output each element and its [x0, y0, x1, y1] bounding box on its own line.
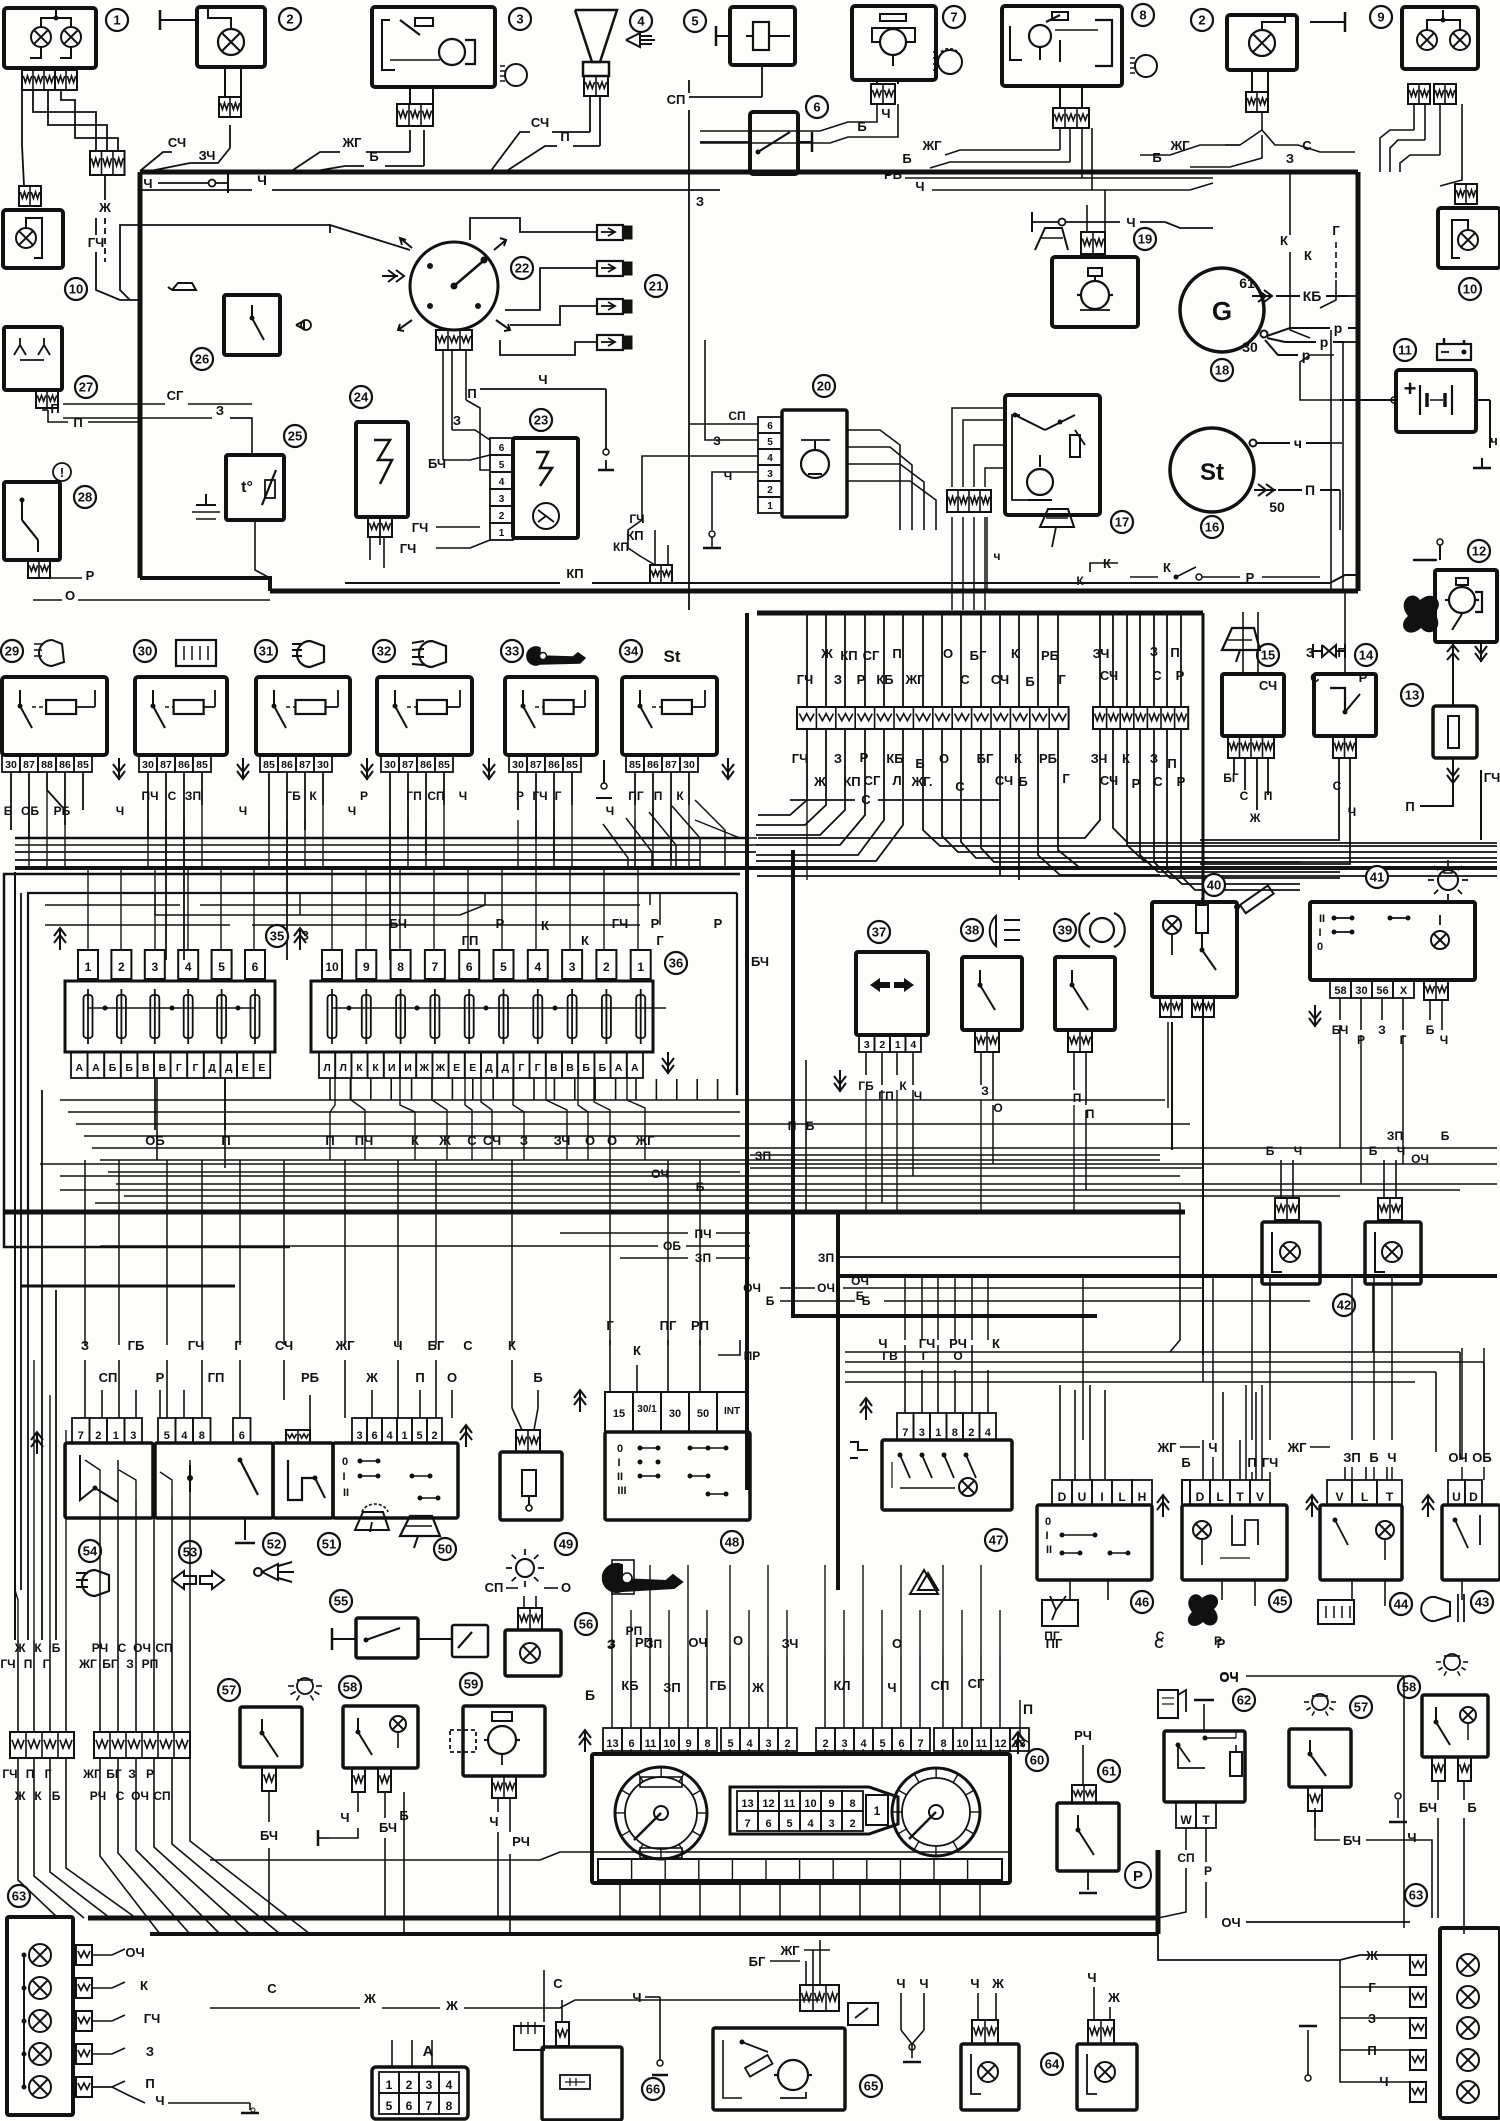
wire RP cluster right — [1020, 1700, 1028, 1742]
svg-text:БГ: БГ — [1223, 771, 1239, 785]
wire central vert below B — [1153, 729, 1155, 790]
svg-text:Р: Р — [1214, 1634, 1222, 1648]
svg-text:К: К — [1122, 751, 1130, 766]
svg-text:87: 87 — [402, 759, 414, 771]
svg-text:ГЧ: ГЧ — [144, 2011, 161, 2026]
fuse box 36 top bar — [332, 1006, 666, 1011]
svg-text:t°: t° — [241, 479, 253, 496]
svg-text:РБ: РБ — [1039, 751, 1057, 766]
wire bundle below central 4 — [756, 790, 865, 845]
svg-text:2: 2 — [118, 960, 125, 974]
wire rb long — [905, 177, 1213, 179]
svg-text:Р: Р — [1133, 1868, 1143, 1885]
svg-text:З: З — [696, 194, 704, 209]
icon warning above 28 — [53, 463, 71, 481]
svg-text:64: 64 — [1045, 2057, 1060, 2072]
svg-text:Ч: Ч — [348, 804, 356, 818]
switch 44 box — [1320, 1505, 1402, 1580]
svg-text:К: К — [309, 789, 317, 803]
oil switch 26 box — [224, 295, 311, 355]
fuel sender 62 box — [1164, 1731, 1245, 1802]
fuse box 36 top cells — [322, 950, 651, 979]
lamp 42b connector — [1378, 1198, 1402, 1220]
svg-text:85: 85 — [629, 759, 641, 771]
label circle 56 — [575, 1613, 597, 1635]
svg-text:D: D — [1469, 1490, 1478, 1504]
connector cells left of 20 — [758, 417, 782, 513]
svg-text:З: З — [216, 403, 224, 418]
relay 14 box — [1314, 591, 1376, 736]
wires heater19 up — [940, 190, 1105, 232]
svg-text:5: 5 — [499, 460, 505, 471]
label circle 21 — [645, 275, 667, 297]
svg-text:Е: Е — [242, 1062, 249, 1074]
icon bulb 41 — [1428, 860, 1468, 900]
wire central vert below — [1057, 729, 1059, 790]
icon key 48 — [603, 1560, 682, 1594]
wires relay merge right — [672, 820, 757, 846]
svg-text:П: П — [24, 1657, 33, 1671]
svg-text:0: 0 — [617, 1443, 623, 1455]
label circle 25 — [284, 425, 306, 447]
svg-text:1: 1 — [113, 13, 120, 28]
svg-text:66: 66 — [646, 2082, 660, 2097]
fuse box 35 outline — [65, 981, 275, 1052]
wires 37-39 down — [882, 1090, 1086, 1203]
svg-text:Ч: Ч — [489, 1814, 498, 1829]
svg-text:Б: Б — [915, 756, 924, 771]
svg-text:10: 10 — [663, 1738, 675, 1750]
cluster top pins right — [816, 1728, 1029, 1751]
svg-text:Ж: Ж — [365, 1370, 378, 1385]
wire central vert above B — [1099, 615, 1101, 707]
connector under 1 — [22, 70, 77, 90]
label circle 42 — [1333, 1294, 1355, 1316]
svg-text:30: 30 — [683, 759, 695, 771]
wire frame extra vertical — [20, 893, 22, 1590]
switch 54 pins — [72, 1418, 142, 1443]
lamp 63R 2 — [1457, 1986, 1479, 2008]
wire vertical thick x838 — [836, 1212, 840, 1590]
svg-text:БГ: БГ — [977, 751, 994, 766]
svg-text:ч: ч — [1490, 433, 1498, 448]
svg-text:52: 52 — [267, 1537, 281, 1552]
svg-text:К: К — [356, 1062, 363, 1074]
svg-text:31: 31 — [259, 644, 273, 659]
wires G R verticals — [1331, 330, 1343, 591]
wire h right 1168 — [750, 1167, 1203, 1169]
wire under 57L — [260, 1791, 278, 1918]
svg-text:Ж: Ж — [813, 774, 826, 789]
svg-text:Г: Г — [535, 1062, 541, 1074]
svg-text:2: 2 — [406, 2078, 413, 2092]
svg-text:1: 1 — [935, 1427, 941, 1439]
stubs below switch row — [1070, 1580, 1462, 1606]
svg-text:St: St — [664, 647, 681, 666]
svg-text:Д: Д — [485, 1062, 493, 1074]
svg-text:СЧ: СЧ — [1100, 773, 1118, 788]
icon wiper 15 — [1222, 628, 1260, 662]
svg-text:БЧ: БЧ — [260, 1828, 278, 1843]
side lamp 10L box — [3, 210, 63, 268]
starter St 16 — [1170, 428, 1340, 515]
wires above 43-46 — [1213, 1457, 1484, 1480]
label circle 48 — [721, 1531, 743, 1553]
svg-text:ЗП: ЗП — [663, 1680, 681, 1695]
label circle 28 — [74, 486, 96, 508]
wire bundle B3 — [1127, 790, 1497, 862]
svg-text:8: 8 — [849, 1798, 855, 1810]
svg-text:22: 22 — [515, 261, 529, 276]
wires dense step left — [15, 845, 807, 880]
wire central vert below B — [1180, 729, 1182, 790]
svg-text:57: 57 — [222, 1683, 236, 1698]
lamp 63R 3 — [1457, 2017, 1479, 2039]
wire central vert above — [941, 615, 943, 707]
label circle 24 — [350, 386, 372, 408]
lamp cluster 63R box — [1440, 1928, 1500, 2118]
svg-text:ГП: ГП — [878, 1089, 893, 1103]
svg-text:ЖГ: ЖГ — [82, 1767, 101, 1781]
wire central vert below — [960, 729, 962, 790]
svg-text:Б: Б — [1152, 150, 1161, 165]
svg-text:1: 1 — [637, 960, 644, 974]
wire main harness top loop — [140, 172, 1358, 591]
relay 30 pins — [139, 755, 211, 772]
wires bundle to lamps 42 — [1203, 1108, 1281, 1355]
wire central vert above — [1018, 615, 1020, 707]
wire central vert below — [806, 729, 808, 790]
svg-text:О: О — [993, 1101, 1002, 1115]
svg-text:Ч: Ч — [340, 1810, 349, 1825]
svg-text:З: З — [1378, 1023, 1386, 1037]
svg-text:Б: Б — [109, 1062, 117, 1074]
svg-text:6: 6 — [252, 960, 259, 974]
switch 44 cells — [1327, 1480, 1402, 1505]
svg-text:3: 3 — [151, 960, 158, 974]
label circle 50 — [434, 1538, 456, 1560]
connector above 19 — [1081, 232, 1105, 254]
wires box1 to 10L — [22, 90, 36, 186]
wires above fuse area 1 — [155, 893, 485, 915]
svg-text:Ж: Ж — [820, 646, 833, 661]
icon oil can — [168, 283, 196, 290]
svg-text:6: 6 — [466, 960, 473, 974]
arrow fuse 36 down — [662, 1052, 674, 1074]
icon interior light 57L — [288, 1678, 322, 1700]
svg-text:Ч: Ч — [919, 1976, 928, 1991]
svg-text:Ч: Ч — [970, 1976, 979, 1991]
svg-text:Б: Б — [1369, 1450, 1378, 1465]
svg-text:КБ: КБ — [1303, 288, 1322, 304]
svg-text:10: 10 — [956, 1738, 968, 1750]
icon wiper below 17 — [1040, 509, 1074, 547]
svg-text:42: 42 — [1337, 1298, 1351, 1313]
svg-text:ЖГ: ЖГ — [1156, 1440, 1177, 1455]
label circle 9 — [1370, 6, 1392, 28]
labels central above right — [1093, 644, 1185, 683]
wire sp o 56 — [499, 1600, 501, 1612]
relay 29 pins — [2, 755, 92, 772]
label circle 32 — [373, 640, 395, 662]
wires above 49 — [508, 1338, 543, 1430]
relay 31 pins — [260, 755, 332, 772]
svg-text:БЧ: БЧ — [1343, 1833, 1361, 1848]
svg-text:ГЧ: ГЧ — [2, 1767, 17, 1781]
svg-text:11: 11 — [645, 1738, 657, 1750]
svg-text:12: 12 — [994, 1738, 1006, 1750]
svg-text:ПЧ: ПЧ — [694, 1227, 711, 1241]
svg-text:5: 5 — [786, 1818, 792, 1830]
svg-text:В: В — [550, 1062, 558, 1074]
relay 33 box — [505, 677, 597, 755]
svg-text:4: 4 — [767, 453, 773, 464]
lamp 63L 1 — [22, 1944, 52, 2087]
svg-text:V: V — [1256, 1490, 1264, 1504]
arrow fuse 35 — [54, 928, 306, 950]
wire bundle down 5 — [999, 790, 1001, 875]
svg-text:4: 4 — [185, 960, 192, 974]
label circle 43 — [1471, 1591, 1493, 1613]
wire bundle right 1362 — [845, 1362, 1484, 1460]
speedometer — [892, 1768, 980, 1856]
wire central vert above B — [1112, 615, 1114, 707]
svg-text:86: 86 — [420, 759, 432, 771]
label circle 44 — [1390, 1593, 1412, 1615]
wire bundle right 1372 — [845, 1372, 1436, 1452]
svg-text:С: С — [1156, 1629, 1165, 1643]
wire 55 to 56 — [418, 1638, 452, 1640]
svg-text:50: 50 — [697, 1408, 709, 1420]
lighter 40 box — [1152, 898, 1237, 997]
svg-text:СП: СП — [728, 409, 745, 423]
connector 56 — [518, 1596, 542, 1630]
ground 63R — [1299, 2026, 1317, 2081]
wire field h7 — [116, 1183, 740, 1185]
svg-text:СЧ: СЧ — [991, 672, 1009, 687]
svg-text:П: П — [1086, 1107, 1095, 1121]
wires right to 43-46 — [1083, 1276, 1484, 1460]
svg-text:КП: КП — [843, 774, 860, 789]
conn above 66 — [556, 2000, 569, 2046]
label circle 37 — [868, 921, 890, 943]
wires box20 to sp vertical — [613, 340, 758, 565]
switch 50 pins — [352, 1418, 442, 1443]
svg-text:18: 18 — [1215, 363, 1229, 378]
svg-text:8: 8 — [199, 1430, 205, 1442]
svg-text:36: 36 — [669, 956, 683, 971]
wire dense central 2 — [825, 805, 827, 893]
wires plugs to distributor — [470, 218, 597, 355]
svg-text:85: 85 — [566, 759, 578, 771]
svg-text:24: 24 — [354, 390, 369, 405]
svg-text:1: 1 — [767, 501, 773, 512]
svg-text:40: 40 — [1207, 878, 1221, 893]
label circle 47 — [985, 1529, 1007, 1551]
ground arrow 41 — [1309, 1005, 1321, 1027]
svg-text:Г: Г — [1062, 771, 1070, 786]
wire battery to bus — [1340, 397, 1498, 468]
svg-text:ЗЧ: ЗЧ — [199, 148, 216, 163]
svg-text:30: 30 — [142, 759, 154, 771]
wire 55 down — [470, 1639, 502, 1700]
lamp 63L 5 — [22, 1955, 52, 2098]
labels central below tier1 — [792, 750, 1177, 771]
svg-text:61: 61 — [1102, 1764, 1116, 1779]
wire central vert below — [844, 729, 846, 790]
wire central vert above — [902, 615, 904, 707]
labels zhg b top — [290, 130, 424, 172]
svg-text:6: 6 — [898, 1738, 904, 1750]
wire field h3 — [84, 1135, 740, 1137]
svg-text:I: I — [1045, 1530, 1048, 1542]
wires box1 to bus — [27, 90, 118, 186]
icon 38 — [990, 916, 1020, 946]
svg-text:ПЧ: ПЧ — [141, 789, 158, 803]
labels sch zch — [140, 125, 230, 171]
svg-text:Р: Р — [651, 916, 660, 931]
svg-text:V: V — [1335, 1490, 1343, 1504]
svg-text:О: О — [953, 1349, 962, 1363]
lamp 63L 4 — [22, 1955, 52, 2087]
svg-text:2: 2 — [603, 960, 610, 974]
svg-text:1: 1 — [85, 960, 92, 974]
wires above 43-46 labels — [1156, 1440, 1491, 1470]
switch 54 box — [65, 1443, 153, 1518]
wires above fuse area verticals — [300, 893, 650, 915]
svg-text:С: С — [1153, 774, 1163, 789]
wire field right exts — [740, 1100, 1497, 1196]
wire central vert below — [902, 729, 904, 790]
svg-text:Б: Б — [1266, 1144, 1275, 1158]
svg-text:ПГ: ПГ — [628, 789, 644, 803]
svg-text:СГ: СГ — [864, 773, 881, 788]
labels left bundle top1 — [0, 1641, 60, 1671]
wire central vert below B — [1126, 729, 1128, 790]
svg-text:ГЧ: ГЧ — [1484, 770, 1500, 785]
svg-text:ЖГ: ЖГ — [341, 135, 362, 150]
fuse box 36 outline — [311, 981, 653, 1052]
wires under 58L — [318, 1792, 409, 1934]
label circle 61 — [1098, 1760, 1120, 1782]
svg-text:4: 4 — [985, 1427, 992, 1439]
wire ch main label — [140, 172, 860, 190]
svg-text:ОЧ: ОЧ — [125, 1945, 144, 1960]
svg-text:Г: Г — [43, 1657, 50, 1671]
label circle 26 — [191, 348, 213, 370]
svg-text:ЖГ: ЖГ — [921, 138, 942, 153]
svg-text:35: 35 — [270, 929, 284, 944]
svg-text:5: 5 — [164, 1430, 170, 1442]
label circle 66 — [642, 2078, 664, 2100]
labels above fuse 36 — [301, 916, 723, 948]
wires under 38 — [981, 1052, 1003, 1115]
svg-text:СП: СП — [99, 1370, 118, 1385]
label circle 3 — [509, 8, 531, 30]
svg-text:БЧ: БЧ — [428, 456, 446, 471]
icon heated window 30 — [176, 640, 216, 666]
lamp unit 1 box — [4, 8, 96, 68]
lamp box 64b — [1077, 2044, 1137, 2110]
connectors under 40 — [1160, 997, 1214, 1017]
wires above 53 — [167, 1338, 242, 1418]
svg-text:6: 6 — [767, 421, 773, 432]
ground arrow left cluster — [31, 1432, 43, 1454]
wires under 14 — [1200, 758, 1356, 864]
spark plug 2 — [597, 261, 632, 276]
label circle 6 — [806, 96, 828, 118]
connector under 2 — [219, 67, 241, 117]
svg-text:ГП: ГП — [208, 1370, 225, 1385]
wire vertical thick left BCH — [745, 613, 749, 1490]
wires field to 47 — [905, 1276, 988, 1345]
svg-text:2: 2 — [784, 1738, 790, 1750]
svg-text:Ч: Ч — [1397, 1144, 1405, 1158]
wire central vert below — [922, 729, 924, 790]
svg-text:3: 3 — [426, 2078, 433, 2092]
svg-text:33: 33 — [505, 644, 519, 659]
label circle 27 — [75, 376, 97, 398]
wire box2 conn to bus — [150, 125, 230, 171]
svg-text:D: D — [1058, 1490, 1067, 1504]
wire C vert — [262, 1981, 282, 2040]
icon washer nozzle right of 7 — [933, 49, 962, 74]
fuse box 35 fuses — [84, 989, 260, 1044]
svg-text:С: С — [168, 789, 177, 803]
labels above cluster tier0 — [607, 1633, 1226, 1652]
svg-text:ОБ: ОБ — [663, 1239, 681, 1253]
lamp 63L 2 — [22, 1955, 52, 2087]
icon headlight 54 — [76, 1570, 109, 1596]
svg-text:49: 49 — [559, 1537, 573, 1552]
svg-text:19: 19 — [1138, 232, 1152, 247]
labels under relay 29 — [4, 804, 71, 818]
spark plug 4 — [597, 335, 632, 350]
svg-text:II: II — [343, 1487, 349, 1499]
ground arrow — [361, 758, 373, 780]
svg-text:СП: СП — [667, 92, 686, 107]
svg-text:6: 6 — [499, 443, 505, 454]
label circle 8 — [1132, 4, 1154, 26]
svg-text:3: 3 — [499, 494, 505, 505]
svg-text:27: 27 — [79, 380, 93, 395]
wire St 50 p — [1320, 490, 1340, 570]
labels central above tier1 — [820, 646, 1059, 663]
switch 61 box — [1057, 1803, 1119, 1871]
svg-text:2: 2 — [767, 485, 773, 496]
labels mid field — [651, 1149, 869, 1303]
svg-text:+: + — [1404, 376, 1417, 401]
svg-text:57: 57 — [1354, 1700, 1368, 1715]
wires cluster to buses — [575, 1800, 980, 1918]
ground arrows switch row — [1157, 1495, 1434, 1517]
wire P right of cluster — [1020, 1690, 1040, 1737]
wire bus lower mid — [5, 1210, 1185, 1215]
wire long h 1164 — [40, 1163, 1497, 1165]
svg-text:КБ: КБ — [621, 1678, 638, 1693]
label circle 10L — [65, 278, 87, 300]
switch 28 box — [4, 482, 60, 560]
svg-text:СЧ: СЧ — [531, 115, 549, 130]
wire frame inner — [28, 893, 737, 1212]
svg-text:р: р — [1334, 320, 1343, 336]
svg-text:7: 7 — [432, 960, 439, 974]
icon wiper above 19 — [1035, 228, 1068, 250]
svg-text:р: р — [1320, 334, 1329, 350]
wires 28 down — [33, 568, 270, 603]
connector under 57R — [1308, 1787, 1322, 1811]
svg-text:Ж: Ж — [991, 1976, 1004, 1991]
